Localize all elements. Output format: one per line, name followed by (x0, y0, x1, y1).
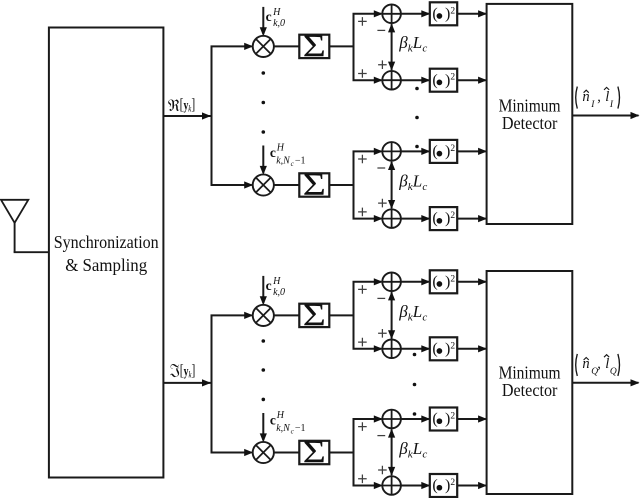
wire: A1a to squarer Q1a (401, 10, 430, 17)
svg-text:,: , (597, 356, 601, 372)
svg-text:l: l (605, 356, 609, 372)
multiplier M3 (253, 305, 274, 326)
svg-text:c: c (270, 412, 276, 427)
svg-text:β: β (398, 33, 408, 52)
label: Im[y_k] (170, 363, 195, 380)
label: plus sign at A3a left input (358, 285, 367, 294)
label: minus sign at A2a lower input (377, 167, 385, 169)
svg-text:Σ: Σ (303, 167, 326, 202)
multiplier M2 (253, 174, 274, 195)
wire: splitter to adder A3a (353, 278, 383, 285)
wire: splitter to adder A2a (353, 148, 383, 155)
wire: Im[y_k] from sync block to lower branch node (163, 379, 211, 386)
adder A1a (382, 5, 401, 24)
adder A1b (382, 71, 401, 90)
wire: S1 to splitter corner (329, 45, 353, 47)
svg-text:c: c (266, 9, 272, 24)
svg-text:& Sampling: & Sampling (65, 255, 147, 275)
wire: A3a to squarer Q3a (401, 278, 430, 285)
wire: S4 to splitter corner (329, 452, 353, 454)
wire: M4 to summation S4 (274, 452, 299, 454)
wire: Re[y_k] from sync block to upper branch node (163, 112, 211, 119)
wire: splitter vertical for group 3 (353, 282, 355, 349)
svg-text:c: c (422, 43, 427, 55)
label: plus sign at A2b left input (358, 208, 367, 217)
summation S2 (sigma box) (299, 167, 329, 202)
svg-text:Σ: Σ (303, 28, 326, 63)
svg-text:c: c (422, 312, 427, 324)
block U1: Synchronization & Sampling (49, 28, 163, 478)
label: c^H_k,0 for M1 (266, 7, 285, 29)
svg-text:c: c (422, 181, 427, 193)
squarer Q3a (430, 270, 457, 293)
svg-text:2: 2 (450, 478, 455, 488)
label: c^H_k,Nc-1 for M2 (270, 143, 306, 168)
antenna (1, 200, 49, 252)
svg-text:(: ( (432, 72, 437, 89)
wire: output of Minimum Detector 1 (572, 112, 639, 119)
label: minus sign at A4a lower input (377, 435, 385, 437)
svg-text:Σ: Σ (303, 297, 326, 332)
label: beta_k L_c for group 3 (398, 302, 427, 324)
wire: correction +/- beta feed between A2a and A2b (388, 161, 395, 209)
svg-text:2: 2 (450, 341, 455, 351)
label: (n_hat, l_hat)_I output (576, 87, 620, 110)
squarer Q1a (430, 2, 457, 25)
summation S1 (sigma box) (299, 28, 329, 63)
svg-text:2: 2 (450, 211, 455, 221)
svg-text:c: c (266, 278, 272, 293)
svg-text:(: ( (432, 477, 437, 494)
wire: splitter vertical for group 2 (353, 151, 355, 218)
adder A4b (382, 476, 401, 495)
wire: lower branch vertical (211, 315, 213, 452)
label: c^H_k,0 for M3 (266, 276, 285, 298)
wire: A2b to squarer Q2b (401, 215, 430, 222)
wire: correction +/- beta feed between A1a and A1b (388, 23, 395, 70)
label: plus sign at A3b upper input (378, 329, 387, 338)
svg-text:(: ( (432, 273, 437, 290)
wire: Q1b to minimum detector (457, 77, 487, 84)
svg-text:Σ: Σ (303, 435, 326, 470)
wire: coefficient input into M1 (260, 7, 267, 36)
node: ellipsis dots lower adder column (413, 353, 417, 416)
svg-text:H: H (272, 7, 281, 18)
svg-text:(: ( (432, 5, 437, 22)
svg-text:β: β (398, 302, 408, 321)
wire: splitter to adder A4a (353, 415, 383, 422)
wire: correction +/- beta feed between A3a and A3b (388, 291, 395, 339)
svg-text:L: L (412, 33, 422, 52)
wire: Q3b to minimum detector (457, 345, 487, 352)
svg-text:−1: −1 (295, 155, 306, 166)
node: ellipsis dots upper adder column (415, 87, 419, 149)
svg-text:[yk]: [yk] (180, 97, 196, 114)
wire: coefficient input into M3 (260, 276, 267, 305)
wire: A4a to squarer Q4a (401, 415, 430, 422)
svg-text:H: H (272, 276, 281, 287)
adder A4a (382, 410, 401, 429)
label: Re[y_k] (168, 97, 195, 114)
svg-text:k,N: k,N (276, 155, 291, 166)
svg-text:Detector: Detector (502, 113, 558, 133)
multiplier M1 (253, 36, 274, 57)
multiplier M4 (253, 442, 274, 463)
svg-text:n: n (582, 356, 589, 372)
wire: splitter to adder A1a (353, 10, 383, 17)
svg-text:β: β (398, 439, 408, 458)
wire: M3 to summation S3 (274, 314, 299, 316)
label: plus sign at A4b upper input (378, 466, 387, 475)
svg-text:H: H (276, 143, 285, 154)
svg-text:2: 2 (450, 274, 455, 284)
squarer Q2b (430, 207, 457, 230)
svg-text:(: ( (432, 143, 437, 160)
label: plus sign at A4b left input (358, 475, 367, 484)
summation S4 (sigma box) (299, 435, 329, 470)
wire: upper branch vertical (211, 46, 213, 185)
wire: Q1a to minimum detector (457, 10, 487, 17)
wire: branch to multiplier M4 (211, 449, 254, 456)
wire: Q4a to minimum detector (457, 415, 487, 422)
svg-text:Synchronization: Synchronization (54, 232, 159, 252)
wire: splitter vertical for group 1 (353, 14, 355, 80)
svg-text:c: c (422, 449, 427, 461)
svg-text:(: ( (432, 210, 437, 227)
block: Minimum Detector 1 (487, 4, 573, 224)
wire: M2 to summation S2 (274, 184, 299, 186)
wire: splitter to adder A3b (353, 345, 383, 352)
squarer Q2a (430, 140, 457, 163)
label: beta_k L_c for group 4 (398, 439, 427, 461)
squarer Q4a (430, 408, 457, 431)
block: Minimum Detector 2 (487, 271, 573, 494)
squarer Q1b (430, 69, 457, 92)
svg-text:2: 2 (450, 73, 455, 83)
wire: splitter to adder A2b (353, 215, 383, 222)
label: plus sign at A1b left input (358, 69, 367, 78)
svg-text:Q: Q (610, 367, 617, 377)
svg-text:k,N: k,N (276, 423, 291, 434)
wire: branch to multiplier M2 (211, 181, 254, 188)
wire: Q4b to minimum detector (457, 482, 487, 489)
svg-text:β: β (398, 172, 408, 191)
adder A3a (382, 273, 401, 292)
wire: splitter to adder A1b (353, 77, 383, 84)
svg-text:c: c (270, 145, 276, 160)
wire: Q3a to minimum detector (457, 278, 487, 285)
label: minus sign at A1a lower input (377, 29, 385, 31)
wire: output of Minimum Detector 2 (572, 379, 639, 386)
svg-text:H: H (276, 410, 285, 421)
label: plus sign at A3b left input (358, 338, 367, 347)
svg-text:L: L (412, 302, 422, 321)
svg-text:k,0: k,0 (273, 18, 285, 29)
node: ellipsis dots upper multiplier column (262, 71, 266, 134)
wire: correction +/- beta feed between A4a and A4b (388, 429, 395, 476)
wire: M1 to summation S1 (274, 45, 299, 47)
svg-text:2: 2 (450, 6, 455, 16)
svg-text:,: , (597, 89, 601, 105)
wire: splitter to adder A4b (353, 482, 383, 489)
wire: splitter vertical for group 4 (353, 419, 355, 486)
wire: A3b to squarer Q3b (401, 345, 430, 352)
svg-text:n: n (582, 89, 589, 105)
wire: A4b to squarer Q4b (401, 482, 430, 489)
squarer Q4b (430, 474, 457, 497)
svg-text:L: L (412, 172, 422, 191)
label: plus sign at A4a left input (358, 422, 367, 431)
label: plus sign at A2b upper input (378, 199, 387, 208)
wire: A1b to squarer Q1b (401, 77, 430, 84)
adder A2a (382, 142, 401, 161)
svg-text:l: l (605, 89, 609, 105)
wire: coefficient input into M2 (260, 146, 267, 175)
squarer Q3b (430, 337, 457, 360)
svg-text:2: 2 (450, 412, 455, 422)
label: plus sign at A1a left input (358, 17, 367, 26)
label: c^H_k,Nc-1 for M4 (270, 410, 306, 435)
adder A3b (382, 340, 401, 359)
svg-text:k,0: k,0 (273, 287, 285, 298)
svg-text:2: 2 (450, 144, 455, 154)
summation S3 (sigma box) (299, 297, 329, 332)
label: beta_k L_c for group 1 (398, 33, 427, 55)
label: plus sign at A1b upper input (378, 60, 387, 69)
wire: S3 to splitter corner (329, 314, 353, 316)
node: ellipsis dots lower multiplier column (262, 339, 266, 401)
label: (n_hat, l_hat)_Q output (576, 354, 620, 377)
svg-text:L: L (412, 439, 422, 458)
wire: coefficient input into M4 (260, 413, 267, 442)
wire: branch to multiplier M1 (211, 43, 254, 50)
adder A2b (382, 209, 401, 228)
wire: Q2b to minimum detector (457, 215, 487, 222)
svg-text:Detector: Detector (502, 380, 558, 400)
label: plus sign at A2a left input (358, 155, 367, 164)
svg-text:−1: −1 (295, 423, 306, 434)
wire: A2a to squarer Q2a (401, 148, 430, 155)
wire: branch to multiplier M3 (211, 312, 254, 319)
label: beta_k L_c for group 2 (398, 172, 427, 194)
svg-text:[yk]: [yk] (180, 363, 196, 380)
svg-text:(: ( (432, 340, 437, 357)
wire: Q2a to minimum detector (457, 148, 487, 155)
wire: S2 to splitter corner (329, 184, 353, 186)
svg-text:(: ( (432, 411, 437, 428)
label: minus sign at A3a lower input (377, 297, 385, 299)
